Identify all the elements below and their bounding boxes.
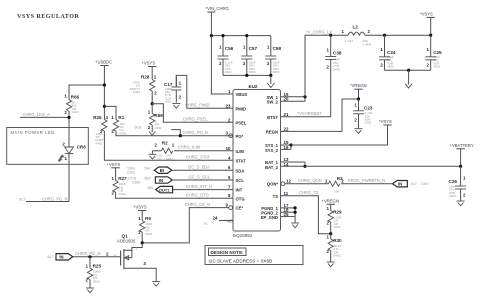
- svg-text:2: 2: [154, 142, 157, 147]
- svg-text:R29: R29: [333, 209, 342, 214]
- svg-text:2381: 2381: [127, 171, 135, 175]
- svg-text:1: 1: [219, 44, 222, 49]
- svg-text:R2: R2: [162, 141, 168, 146]
- box MAIN POWER LED: [7, 128, 89, 165]
- svg-text:2: 2: [368, 29, 371, 34]
- svg-text:2: 2: [243, 61, 246, 66]
- node VIN/VBUS: [210, 34, 213, 37]
- svg-text:R27: R27: [118, 176, 127, 181]
- node C57 bottom: [245, 74, 248, 77]
- svg-text:1: 1: [106, 115, 109, 120]
- svg-text:R25: R25: [93, 264, 102, 269]
- svg-text:PMID: PMID: [236, 106, 246, 111]
- capacitor C57: [241, 34, 257, 75]
- svg-text:0402: 0402: [119, 192, 126, 196]
- svg-text:0402: 0402: [334, 254, 341, 258]
- svg-text:+VSYS: +VSYS: [142, 60, 156, 65]
- resistor R66: [64, 94, 79, 128]
- ground arrow below input caps: [267, 75, 274, 87]
- svg-text:BI: BI: [160, 168, 164, 173]
- capacitor C24: [379, 35, 396, 70]
- wire SW to LX rail: [305, 35, 348, 97]
- svg-text:1: 1: [179, 81, 182, 86]
- svg-text:L2: L2: [353, 25, 359, 30]
- node R25 tap: [88, 255, 91, 258]
- svg-text:R26: R26: [93, 115, 102, 120]
- svg-text:IN: IN: [159, 178, 163, 183]
- svg-text:ILIM: ILIM: [236, 149, 245, 154]
- off-page connector OUT1 (INT): [147, 184, 233, 193]
- node USBDC/R66: [103, 83, 106, 86]
- capacitor C25: [425, 35, 442, 70]
- pin 3 PG* with bubble: [226, 131, 244, 139]
- wire SYS pins tie: [281, 143, 293, 149]
- svg-text:0603: 0603: [365, 121, 372, 125]
- svg-text:CHRG_PMID: CHRG_PMID: [185, 103, 210, 108]
- wire cap bottom rail: [223, 74, 271, 76]
- svg-text:1: 1: [267, 44, 270, 49]
- IC EU2 BQ25892 charger body: [233, 84, 281, 238]
- transistor Q1: [114, 234, 156, 281]
- power flag *VIN_CHRG: [206, 6, 229, 36]
- svg-text:1: 1: [154, 75, 157, 80]
- svg-text:2: 2: [179, 95, 182, 100]
- power flag +USBDC: [95, 60, 112, 120]
- svg-text:0402: 0402: [165, 100, 172, 104]
- svg-text:10: 10: [226, 146, 231, 151]
- capacitor C23: [353, 99, 373, 128]
- svg-text:1.4PH: 1.4PH: [363, 42, 372, 46]
- svg-text:*VIN_CHRG: *VIN_CHRG: [206, 6, 229, 11]
- svg-text:0402: 0402: [95, 141, 102, 145]
- svg-text:+USBDC: +USBDC: [95, 60, 112, 65]
- capacitor C26: [449, 166, 467, 200]
- pin 21 BTST: [267, 112, 289, 120]
- pin 22 REGN: [266, 126, 289, 134]
- svg-text:R28: R28: [141, 75, 150, 80]
- svg-text:6c7: 6c7: [411, 182, 417, 186]
- resistor R28: [130, 75, 158, 104]
- resistor R26 pull-up to STAT: [93, 115, 233, 160]
- svg-text:1: 1: [243, 44, 246, 49]
- wire C17 to PMID: [176, 75, 233, 108]
- pin 14 BAT_2: [265, 162, 289, 170]
- svg-text:1: 1: [64, 94, 67, 99]
- svg-text:2360: 2360: [132, 181, 140, 185]
- ground at R2: [148, 151, 156, 159]
- svg-text:C56: C56: [225, 46, 234, 51]
- pin 7 INT: [228, 185, 243, 193]
- ground below C23: [355, 129, 363, 134]
- svg-text:4: 4: [114, 253, 116, 257]
- svg-text:I2C_S_SDA: I2C_S_SDA: [188, 165, 210, 170]
- pin 4 STAT: [228, 155, 246, 163]
- ground below C17: [172, 104, 180, 109]
- svg-text:7: 7: [228, 185, 231, 190]
- svg-text:SW_2: SW_2: [267, 100, 279, 105]
- pin 2 PSEL: [228, 117, 247, 125]
- svg-text:DESIGN NOTE:: DESIGN NOTE:: [211, 250, 245, 255]
- svg-text:EU2: EU2: [249, 84, 258, 89]
- pin 15 SYS_1: [265, 140, 289, 148]
- pin 25 EP_GND: [261, 212, 289, 220]
- design note box: [205, 246, 303, 265]
- pin 6 SDA: [228, 165, 244, 173]
- svg-text:11: 11: [284, 191, 289, 196]
- svg-text:1: 1: [354, 103, 357, 108]
- svg-text:C26: C26: [449, 179, 458, 184]
- svg-text:SCL: SCL: [236, 178, 245, 183]
- svg-text:PG*: PG*: [236, 134, 244, 139]
- svg-text:0402: 0402: [166, 157, 173, 161]
- svg-text:R1: R1: [118, 115, 124, 120]
- svg-text:2: 2: [267, 61, 270, 66]
- svg-text:2: 2: [427, 62, 430, 67]
- pin 12 QON* with bubble: [267, 179, 292, 187]
- svg-text:BQ25892: BQ25892: [233, 233, 253, 238]
- svg-text:10K: 10K: [334, 189, 340, 193]
- wire C38 to BTST: [281, 60, 331, 117]
- svg-text:9: 9: [226, 203, 229, 208]
- svg-text:0402: 0402: [119, 131, 126, 135]
- svg-text:2: 2: [380, 62, 383, 67]
- svg-text:0402: 0402: [225, 70, 232, 74]
- pin 19 SW_1: [267, 92, 289, 100]
- svg-text:2: 2: [228, 117, 231, 122]
- svg-text:SYS_2: SYS_2: [265, 148, 279, 153]
- svg-text:2: 2: [62, 141, 65, 146]
- svg-text:21: 21: [284, 112, 289, 117]
- svg-text:2: 2: [148, 125, 151, 130]
- svg-text:0402: 0402: [72, 110, 79, 114]
- wire PGND tie: [281, 206, 297, 222]
- svg-text:CR8: CR8: [77, 144, 87, 149]
- svg-text:I2C SLAVE ADDRESS = 0X6B: I2C SLAVE ADDRESS = 0X6B: [209, 258, 273, 263]
- svg-text:IN: IN: [398, 182, 402, 187]
- power flag +VBATTERY: [450, 143, 474, 168]
- pin 11 TS: [273, 191, 289, 199]
- svg-text:R69: R69: [154, 113, 163, 118]
- wire SW pins tie: [281, 95, 307, 101]
- svg-text:0603: 0603: [249, 70, 256, 74]
- node Q1 drain: [141, 241, 144, 244]
- svg-text:1: 1: [86, 264, 89, 269]
- off-page connector BI (SDA): [127, 165, 233, 175]
- svg-text:VBUS: VBUS: [236, 92, 248, 97]
- node C24 top: [383, 34, 386, 37]
- ground below R25: [86, 288, 94, 293]
- svg-text:CHRG_TS: CHRG_TS: [299, 190, 319, 195]
- svg-text:0402: 0402: [133, 90, 140, 94]
- svg-text:5: 5: [228, 175, 231, 180]
- ground below R30: [327, 262, 335, 267]
- svg-text:1: 1: [138, 216, 141, 221]
- resistor R25: [86, 257, 102, 288]
- svg-text:1: 1: [111, 115, 114, 120]
- wire REGN to VREGN/C23: [281, 99, 359, 131]
- pin 16 SYS_2: [265, 145, 289, 153]
- svg-text:*VSYS: *VSYS: [420, 11, 433, 16]
- capacitor C56: [218, 34, 234, 75]
- wire TS to divider: [281, 196, 331, 234]
- node R26/R1 branch: [103, 105, 106, 108]
- svg-text:8: 8: [228, 193, 231, 198]
- capacitor C17 on PMID: [164, 75, 182, 103]
- svg-text:3: 3: [226, 131, 229, 136]
- power flag +VREGN (R29): [322, 198, 339, 210]
- svg-text:2: 2: [463, 193, 466, 198]
- svg-text:465: 465: [147, 186, 153, 190]
- svg-text:1: 1: [327, 235, 330, 240]
- svg-text:1: 1: [327, 206, 330, 211]
- svg-text:0402: 0402: [333, 67, 340, 71]
- net CHRG_PG_N lower stub: [19, 196, 69, 201]
- wire PSEL: [152, 104, 233, 123]
- svg-text:REGN: REGN: [266, 130, 278, 135]
- svg-text:0603: 0603: [387, 65, 394, 69]
- svg-text:*VREGN: *VREGN: [350, 83, 367, 88]
- svg-text:STAT: STAT: [236, 158, 247, 163]
- resistor R3: [325, 176, 392, 194]
- svg-text:1: 1: [135, 247, 137, 251]
- resistor R29: [327, 206, 343, 234]
- svg-text:2: 2: [64, 110, 67, 115]
- svg-text:CHRG_STAT: CHRG_STAT: [186, 155, 211, 160]
- svg-text:2: 2: [354, 118, 357, 123]
- off-page connector IN (PG bottom): [48, 251, 121, 260]
- svg-text:3: 3: [143, 261, 146, 266]
- power flag *VSYS (SYS): [379, 119, 392, 125]
- off-page connector IN (SCL): [127, 174, 233, 184]
- svg-text:1: 1: [112, 176, 115, 181]
- pin 24 NC: [204, 216, 233, 226]
- svg-text:CE*: CE*: [236, 206, 244, 211]
- power flag *VSYS top right: [420, 11, 435, 37]
- svg-text:R5: R5: [145, 216, 151, 221]
- ground below Q1 source: [152, 282, 160, 287]
- LED CR8: [59, 128, 87, 202]
- pin 8 OTG: [228, 193, 245, 201]
- svg-text:QON*: QON*: [267, 182, 279, 187]
- svg-text:1: 1: [342, 29, 345, 34]
- svg-text:1: 1: [327, 48, 330, 53]
- svg-text:CHRG_LED_A: CHRG_LED_A: [23, 112, 51, 117]
- svg-text:23b7: 23b7: [421, 182, 429, 186]
- pin 17 PGND_1: [261, 203, 289, 211]
- resistor R1 pull-up to PG: [111, 115, 233, 136]
- pin 9 CE* with bubble: [226, 203, 244, 211]
- net CHRG_LED_A stub: [20, 112, 71, 119]
- svg-text:0603: 0603: [433, 65, 440, 69]
- svg-text:+VSYS: +VSYS: [107, 162, 121, 167]
- svg-text:AOB1606: AOB1606: [117, 238, 136, 243]
- wire stub into PG net: [171, 130, 182, 138]
- svg-text:VSYS REGULATOR: VSYS REGULATOR: [17, 13, 79, 20]
- svg-text:PSEL: PSEL: [236, 120, 247, 125]
- node C38 top: [329, 34, 332, 37]
- svg-text:1: 1: [380, 47, 383, 52]
- wire VBUS drop: [211, 36, 233, 94]
- svg-text:OTG: OTG: [236, 196, 245, 201]
- pin 13 BAT_1: [265, 157, 289, 165]
- svg-text:1: 1: [65, 156, 68, 161]
- svg-text:9C: 9C: [204, 222, 209, 226]
- svg-text:0402: 0402: [334, 225, 341, 229]
- ground below PGND: [291, 223, 299, 228]
- svg-text:2: 2: [341, 179, 344, 184]
- svg-text:2: 2: [106, 251, 109, 256]
- power flag +VSYS (R5): [133, 204, 147, 220]
- svg-text:1: 1: [463, 175, 466, 180]
- ground arrow below C24/C25: [405, 70, 412, 88]
- svg-text:0603: 0603: [273, 70, 280, 74]
- svg-text:PROC_PWRBTN_N: PROC_PWRBTN_N: [348, 178, 385, 183]
- node R28/R69/PSEL: [151, 102, 154, 105]
- svg-text:22: 22: [284, 126, 289, 131]
- wire CE to Q1 drain: [142, 208, 229, 243]
- resistor R30: [327, 234, 343, 262]
- wire BAT pins tie: [281, 162, 307, 168]
- off-page connector IN (PWRBTN): [393, 181, 430, 187]
- svg-text:6B7: 6B7: [145, 177, 151, 181]
- pin 10 ILIM: [226, 146, 245, 154]
- svg-text:CHRG_OTG: CHRG_OTG: [186, 193, 209, 198]
- svg-text:EP_GND: EP_GND: [261, 215, 278, 220]
- svg-text:5A7: 5A7: [145, 167, 151, 171]
- svg-text:*VCHRGBST: *VCHRGBST: [298, 111, 323, 116]
- svg-text:R66: R66: [71, 95, 80, 100]
- wire R1 branch: [104, 106, 116, 119]
- resistor R5: [138, 216, 153, 243]
- svg-text:6c7: 6c7: [48, 255, 54, 259]
- svg-text:*V_CHRG_LX: *V_CHRG_LX: [306, 30, 332, 35]
- svg-text:I2C_S_SCL: I2C_S_SCL: [188, 174, 210, 179]
- node TS divider: [329, 232, 332, 235]
- wire VIN rail top: [211, 35, 270, 37]
- ground below C26: [457, 201, 465, 206]
- svg-text:R30: R30: [333, 238, 342, 243]
- resistor R2 on ILIM: [152, 141, 233, 161]
- svg-text:2: 2: [327, 64, 330, 69]
- pin 5 SCL: [228, 175, 244, 183]
- svg-text:SDA: SDA: [236, 168, 245, 173]
- resistor R27 pull-up on OTG: [112, 176, 233, 198]
- svg-text:INT: INT: [236, 188, 243, 193]
- pin 23 PMID: [226, 103, 246, 111]
- svg-text:CHRG_PSEL: CHRG_PSEL: [183, 117, 209, 122]
- svg-text:6C7: 6C7: [19, 198, 26, 202]
- svg-text:0603: 0603: [449, 194, 456, 198]
- svg-text:6: 6: [228, 165, 231, 170]
- capacitor C38 bootstrap: [325, 35, 342, 71]
- svg-text:0402: 0402: [93, 279, 100, 283]
- power flag +VSYS (R27): [107, 162, 121, 181]
- svg-text:IN: IN: [59, 255, 63, 260]
- pin 20 SW_2: [267, 97, 289, 105]
- svg-text:*VSYS: *VSYS: [379, 119, 392, 124]
- svg-text:BTST: BTST: [267, 115, 278, 120]
- svg-text:CHRG_QON: CHRG_QON: [298, 178, 322, 183]
- svg-text:2: 2: [154, 91, 157, 96]
- wire C24/C25 bottom rail: [385, 69, 431, 71]
- svg-text:C23: C23: [364, 106, 373, 111]
- resistor R69: [148, 104, 164, 136]
- svg-text:TS: TS: [273, 194, 279, 199]
- svg-text:CHRG_CE_N: CHRG_CE_N: [185, 202, 210, 207]
- svg-text:0402: 0402: [145, 232, 152, 236]
- svg-text:MAIN POWER LED: MAIN POWER LED: [11, 130, 55, 135]
- svg-text:CHRG_PG_N: CHRG_PG_N: [42, 196, 68, 201]
- svg-text:4.7uH: 4.7uH: [345, 39, 353, 43]
- svg-text:1: 1: [228, 89, 231, 94]
- svg-text:C58: C58: [273, 46, 282, 51]
- svg-text:CHRG_PG_N: CHRG_PG_N: [183, 130, 209, 135]
- inductor L2: [342, 25, 431, 47]
- svg-text:12: 12: [286, 179, 291, 184]
- wire QON row: [285, 183, 329, 185]
- svg-text:1: 1: [427, 47, 430, 52]
- svg-text:CHRG_INT_N: CHRG_INT_N: [186, 184, 212, 189]
- power flag +VSYS (R28): [142, 60, 157, 79]
- pin 1 VBUS: [228, 89, 247, 97]
- svg-text:1: 1: [325, 179, 328, 184]
- svg-text:CHRG_PG_N: CHRG_PG_N: [75, 251, 101, 256]
- svg-text:1: 1: [148, 110, 151, 115]
- pin 18 PGND_2: [261, 208, 289, 216]
- svg-text:CHRG_ILIM: CHRG_ILIM: [178, 145, 201, 150]
- svg-text:C57: C57: [249, 46, 258, 51]
- svg-text:+VREGN: +VREGN: [322, 198, 339, 203]
- node C58 bottom: [269, 74, 272, 77]
- power flag *VREGN: [350, 83, 367, 100]
- wire SYS to VSYS flag: [291, 125, 388, 145]
- wire BAT to battery: [305, 165, 461, 167]
- svg-text:0402: 0402: [155, 126, 162, 130]
- svg-text:6C8: 6C8: [135, 126, 142, 130]
- svg-text:1%: 1%: [157, 157, 162, 161]
- svg-text:BAT_2: BAT_2: [265, 165, 279, 170]
- capacitor C58: [265, 36, 281, 76]
- svg-text:+VBATTERY: +VBATTERY: [450, 143, 474, 148]
- svg-text:4: 4: [228, 155, 231, 160]
- svg-text:23: 23: [226, 103, 231, 108]
- svg-text:C38: C38: [333, 50, 342, 55]
- wire USBDC to R66 branch: [69, 85, 104, 100]
- svg-text:2: 2: [219, 61, 222, 66]
- node rail/ground: [407, 69, 410, 72]
- svg-text:24: 24: [213, 216, 218, 221]
- svg-text:+VSYS: +VSYS: [133, 204, 147, 209]
- svg-text:1: 1: [172, 143, 175, 148]
- svg-text:OUT1: OUT1: [159, 187, 170, 192]
